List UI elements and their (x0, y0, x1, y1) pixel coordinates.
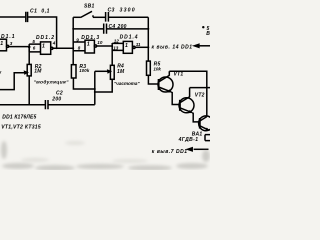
svg-text:5: 5 (32, 39, 35, 44)
svg-text:100k: 100k (79, 68, 90, 73)
svg-text:DD1 К176ЛЕ5: DD1 К176ЛЕ5 (2, 115, 36, 121)
svg-text:к выв.7 DD1: к выв.7 DD1 (152, 149, 188, 155)
svg-text:1М: 1М (34, 68, 42, 74)
svg-text:200: 200 (117, 24, 127, 30)
svg-text:DD1.4: DD1.4 (120, 35, 139, 41)
svg-text:1: 1 (87, 42, 90, 48)
svg-text:VT1,VT2 КТ315: VT1,VT2 КТ315 (1, 124, 41, 130)
svg-text:9: 9 (76, 37, 79, 42)
svg-text:"модуляция": "модуляция" (34, 80, 70, 86)
svg-text:4: 4 (52, 41, 56, 46)
svg-text:1М: 1М (117, 69, 125, 75)
svg-text:VT2: VT2 (195, 93, 205, 99)
svg-text:С1 0,1: С1 0,1 (30, 9, 50, 15)
svg-text:к выв. 14 DD1: к выв. 14 DD1 (152, 44, 193, 50)
svg-text:SB1: SB1 (84, 3, 94, 9)
svg-text:1: 1 (42, 44, 45, 50)
svg-text:1: 1 (0, 41, 3, 47)
svg-text:6: 6 (33, 46, 36, 51)
svg-text:11: 11 (136, 42, 141, 47)
svg-text:VT1: VT1 (174, 71, 184, 77)
svg-text:4ГДВ-1: 4ГДВ-1 (178, 137, 199, 143)
svg-text:"частота": "частота" (114, 81, 140, 86)
svg-text:С4: С4 (109, 24, 116, 30)
svg-text:200: 200 (51, 96, 61, 102)
svg-text:10k: 10k (153, 67, 161, 72)
svg-text:3: 3 (10, 41, 13, 46)
svg-text:13: 13 (113, 45, 119, 50)
svg-text:DD1.1: DD1.1 (0, 34, 15, 40)
svg-text:С3: С3 (108, 7, 115, 13)
svg-text:В: В (206, 31, 210, 37)
svg-text:8: 8 (78, 46, 81, 51)
svg-text:1: 1 (125, 43, 128, 49)
svg-text:10: 10 (97, 40, 103, 45)
svg-text:3300: 3300 (120, 7, 136, 13)
svg-text:12: 12 (114, 38, 120, 43)
